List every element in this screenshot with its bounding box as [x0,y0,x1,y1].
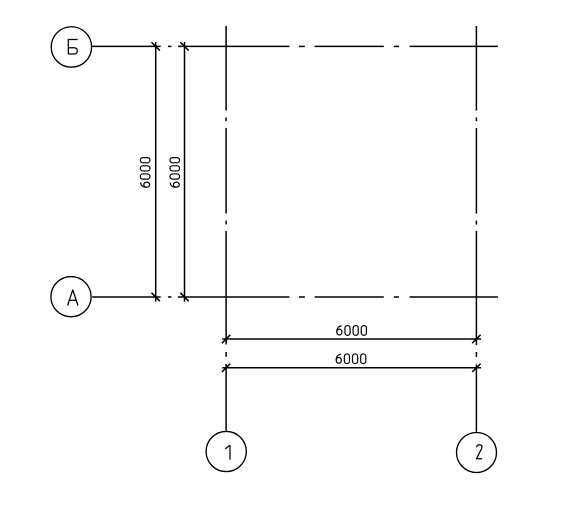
grid line 2 (dash-dot) [475,26,477,432]
bubble digit 2 [477,445,483,459]
tick H2 left [222,364,230,372]
dim text 6000 vertical 2 [170,158,180,188]
axis bubble А [51,277,91,317]
tick V2 bottom [180,293,188,301]
dimension line V1 x=155.7 [155,42,157,302]
tick H1 left [222,335,230,343]
bubble letter А [68,290,78,305]
axis bubble Б [51,27,91,67]
tick V1 top [152,42,160,50]
dim text 6000 vertical 1 [140,158,150,188]
tick V2 top [180,42,188,50]
tick H1 right [472,335,480,343]
axis line Б (dash-dot) [92,45,498,47]
dimension line H2 y=367.8 [222,367,481,369]
axis line А (dash-dot) [92,296,498,298]
tick V1 bottom [152,293,160,301]
axis bubble 2 [457,433,497,473]
dim text 6000 horizontal 2 [336,354,366,364]
bubble letter Б [68,40,77,55]
grid line 1 (dash-dot) [225,26,227,431]
dim text 6000 horizontal 1 [337,326,367,336]
bubble digit 1 [225,445,230,460]
axis bubble 1 [206,431,246,471]
tick H2 right [472,364,480,372]
dimension line V2 x=184.5 [184,42,186,302]
dimension line H1 y=339 [222,338,481,340]
